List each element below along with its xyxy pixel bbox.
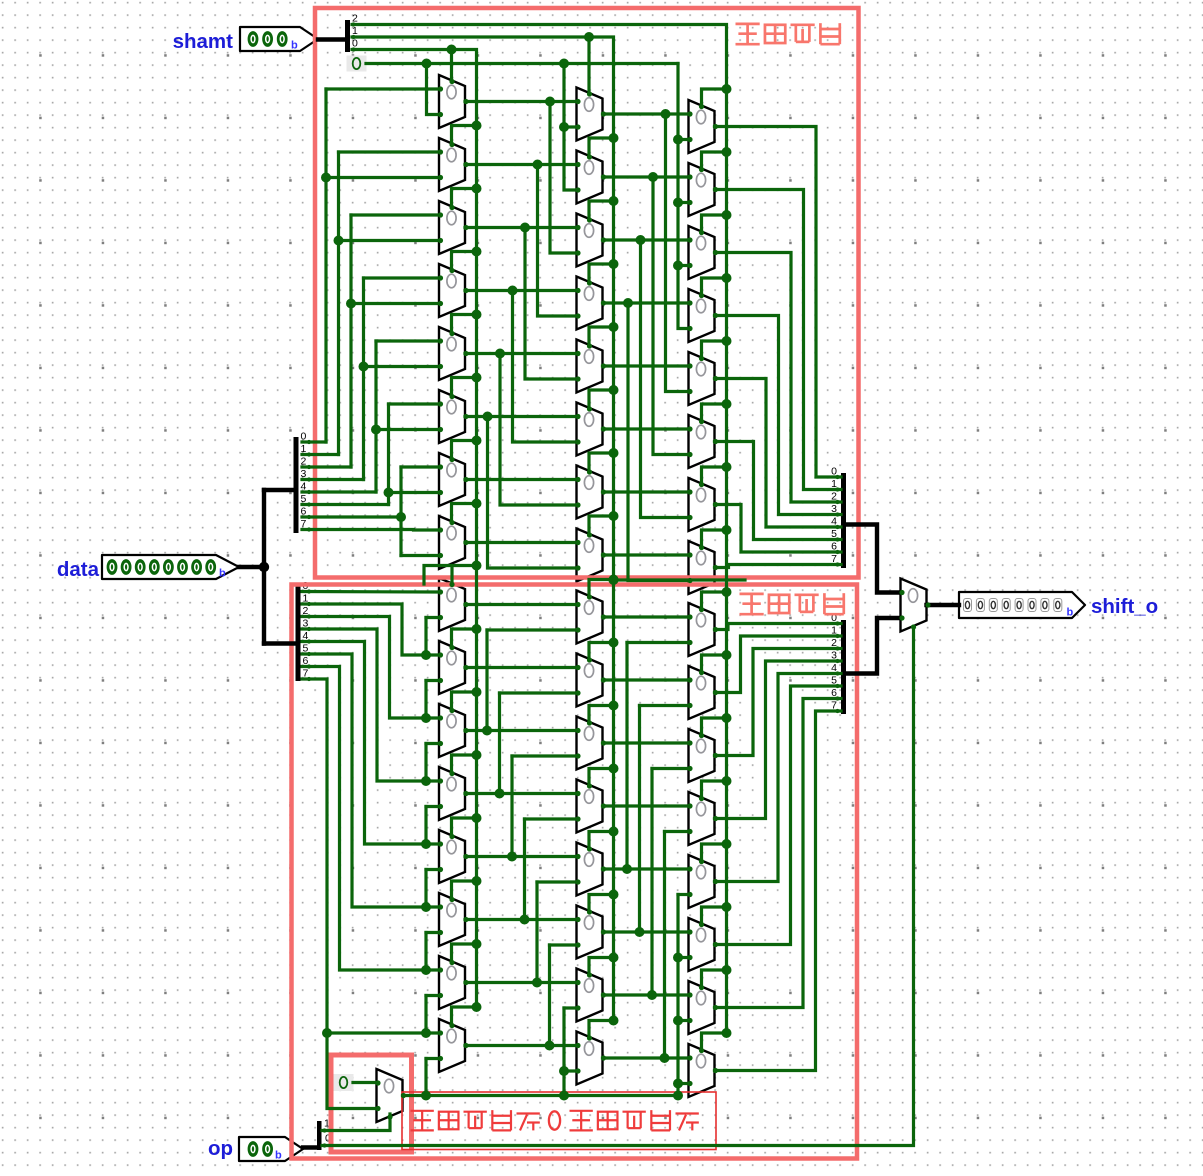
svg-text:b: b — [291, 40, 298, 52]
svg-text:b: b — [275, 1150, 282, 1162]
svg-text:shamt: shamt — [173, 30, 234, 53]
svg-text:op: op — [208, 1137, 233, 1160]
svg-text:b: b — [1067, 607, 1074, 619]
svg-text:b: b — [219, 568, 226, 580]
svg-text:shift_o: shift_o — [1091, 595, 1158, 618]
svg-text:data: data — [57, 558, 100, 581]
